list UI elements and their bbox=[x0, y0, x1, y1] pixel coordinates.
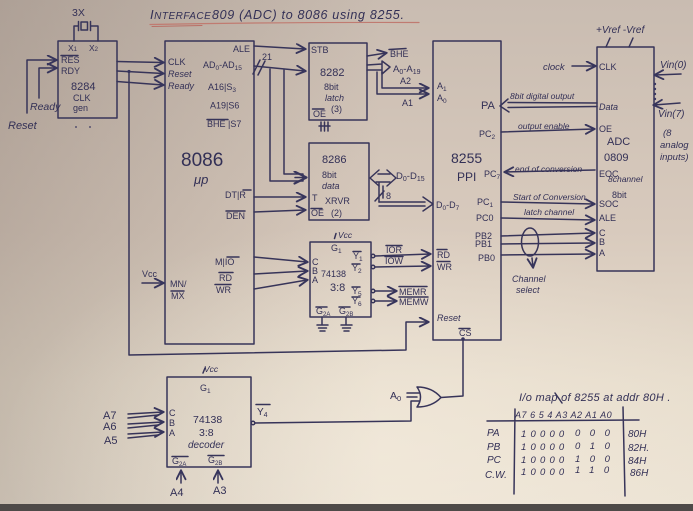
svg-text:Vcc: Vcc bbox=[204, 364, 219, 374]
svg-text:80H: 80H bbox=[628, 429, 647, 440]
svg-text:21: 21 bbox=[262, 52, 272, 62]
svg-text:C: C bbox=[169, 408, 176, 418]
svg-text:analog: analog bbox=[660, 140, 689, 151]
svg-text:A2: A2 bbox=[400, 76, 411, 86]
svg-text:Vin(0): Vin(0) bbox=[660, 60, 687, 71]
svg-text:8255: 8255 bbox=[451, 150, 482, 166]
wire D0-D7 to 8255 bbox=[379, 197, 433, 211]
svg-text:86H: 86H bbox=[630, 468, 649, 479]
svg-text:Reset: Reset bbox=[437, 313, 461, 323]
svg-text:Start of Conversion: Start of Conversion bbox=[513, 192, 586, 202]
svg-text:(3): (3) bbox=[331, 104, 342, 114]
svg-text:X1: X1 bbox=[68, 43, 78, 53]
wire PC2 to OE bbox=[501, 129, 594, 132]
svg-text:A: A bbox=[169, 428, 175, 438]
Y4 output bbox=[257, 407, 268, 419]
svg-text:latch: latch bbox=[325, 93, 344, 103]
node A7 A6 A5 labels bbox=[103, 410, 117, 447]
Vin ellipsis dots bbox=[654, 83, 656, 85]
svg-text:clock: clock bbox=[543, 62, 566, 73]
A0 input to OR gate bbox=[390, 390, 401, 403]
Vin(0) input bbox=[660, 60, 687, 71]
svg-text:CLK: CLK bbox=[73, 93, 91, 103]
Y5 MEMR bbox=[371, 289, 375, 293]
wire ALE to 8282 STB bbox=[254, 46, 305, 49]
A0-A19 bus output of 8282 bbox=[367, 61, 390, 74]
svg-text:G1: G1 bbox=[200, 383, 211, 395]
svg-text:RES: RES bbox=[61, 55, 80, 65]
svg-text:A0: A0 bbox=[437, 93, 447, 105]
svg-text:MEMR: MEMR bbox=[399, 287, 427, 297]
svg-text:BHE |S7: BHE |S7 bbox=[207, 119, 241, 129]
svg-text:data: data bbox=[322, 181, 340, 191]
svg-text:(2): (2) bbox=[331, 208, 342, 218]
svg-text:C.W.: C.W. bbox=[485, 470, 507, 481]
svg-text:T: T bbox=[312, 193, 318, 203]
svg-text:809 (ADC) to 8086 using 8255.: 809 (ADC) to 8086 using 8255. bbox=[212, 8, 405, 22]
svg-text:IOR: IOR bbox=[386, 245, 403, 255]
svg-text:X2: X2 bbox=[89, 43, 99, 53]
svg-text:OE: OE bbox=[311, 208, 324, 218]
wire DT/R to 8286 T bbox=[254, 196, 305, 198]
svg-text:A0-A19: A0-A19 bbox=[393, 64, 421, 76]
wire EOC to PC7 bbox=[505, 170, 595, 172]
svg-text:0809: 0809 bbox=[604, 152, 628, 164]
wire OR out to 8255 CS bbox=[441, 339, 463, 398]
svg-text:A4: A4 bbox=[170, 487, 183, 499]
svg-text:IOW: IOW bbox=[385, 256, 404, 266]
wire A6 to decoder B bbox=[128, 422, 163, 424]
channel select ellipse bbox=[522, 228, 539, 256]
svg-text:8channel: 8channel bbox=[608, 174, 644, 184]
svg-text:PB: PB bbox=[487, 442, 501, 453]
wire A3 to G2B bbox=[217, 471, 219, 483]
svg-text:010: 010 bbox=[575, 441, 619, 452]
svg-text:3:8: 3:8 bbox=[199, 427, 214, 439]
8284 clock generator U1 bbox=[58, 41, 117, 118]
svg-text:3:8: 3:8 bbox=[330, 282, 345, 294]
svg-text:8bit: 8bit bbox=[324, 82, 339, 92]
svg-text:A16|S3: A16|S3 bbox=[208, 82, 236, 94]
wire 8284 RESET to 8086 bbox=[117, 71, 163, 74]
wire PC1 to SOC bbox=[501, 202, 594, 204]
svg-text:SOC: SOC bbox=[599, 199, 619, 209]
svg-text:end of conversion: end of conversion bbox=[515, 164, 582, 174]
svg-text:output enable: output enable bbox=[518, 121, 570, 131]
svg-text:PC0: PC0 bbox=[476, 213, 494, 223]
svg-text:I/o map of 8255 at addr 80H .: I/o map of 8255 at addr 80H . bbox=[519, 392, 671, 404]
wire WR to decoder A bbox=[254, 280, 307, 289]
8286 data transceiver bbox=[309, 143, 369, 220]
svg-text:10000: 10000 bbox=[521, 455, 568, 466]
svg-text:MN/: MN/ bbox=[170, 279, 187, 289]
svg-text:G1: G1 bbox=[331, 243, 342, 255]
svg-text:WR: WR bbox=[216, 285, 231, 295]
svg-text:+Vref -Vref: +Vref -Vref bbox=[596, 25, 645, 36]
svg-text:PA: PA bbox=[481, 100, 496, 112]
wire PB1 to B bbox=[501, 243, 594, 244]
svg-text:84H: 84H bbox=[628, 456, 647, 467]
svg-text:A1: A1 bbox=[437, 81, 447, 93]
svg-text:A: A bbox=[312, 275, 318, 285]
svg-text:PPI: PPI bbox=[457, 170, 476, 184]
wire AD bus down to 8286 bbox=[270, 69, 303, 181]
wire PC0 to ALE bbox=[501, 218, 594, 220]
svg-text:G2A: G2A bbox=[172, 456, 186, 468]
BHE output of 8282 bbox=[367, 53, 386, 56]
svg-text:Channel: Channel bbox=[512, 274, 547, 284]
svg-text:A: A bbox=[599, 248, 605, 258]
svg-text:8282: 8282 bbox=[320, 67, 344, 79]
svg-text:10000: 10000 bbox=[521, 442, 568, 453]
ground hatches below decoder bbox=[317, 317, 328, 331]
svg-text:100: 100 bbox=[575, 454, 619, 465]
node reset junction bbox=[127, 70, 130, 73]
svg-text:G2A: G2A bbox=[316, 306, 330, 318]
svg-text:8bit digital output: 8bit digital output bbox=[510, 91, 575, 101]
Y1 IOR to 8255 RD bbox=[371, 254, 375, 258]
svg-text:PC2: PC2 bbox=[479, 129, 496, 141]
wire A4 to G2A bbox=[180, 471, 182, 483]
ADC 0809 bbox=[597, 47, 654, 271]
svg-text:PA: PA bbox=[487, 428, 500, 439]
svg-text:ADC: ADC bbox=[607, 136, 630, 148]
svg-text:MEMW: MEMW bbox=[399, 297, 429, 307]
svg-text:A5: A5 bbox=[104, 435, 117, 447]
bus slash 21 bbox=[253, 60, 265, 75]
external Ready input bbox=[39, 68, 56, 98]
D bus tap down slash 8 bbox=[375, 183, 384, 202]
svg-text:3X: 3X bbox=[72, 7, 85, 19]
svg-text:WR: WR bbox=[437, 262, 452, 272]
Y6 MEMW bbox=[371, 299, 375, 303]
wire PB0 to A bbox=[501, 254, 594, 255]
svg-text:10000: 10000 bbox=[521, 467, 568, 478]
svg-text:μp: μp bbox=[193, 172, 208, 187]
svg-text:XRVR: XRVR bbox=[325, 196, 350, 206]
svg-text:PC1: PC1 bbox=[477, 197, 494, 209]
svg-text:Y1: Y1 bbox=[353, 251, 363, 263]
svg-text:RD: RD bbox=[437, 250, 450, 260]
svg-text:CLK: CLK bbox=[168, 57, 186, 67]
svg-text:G2B: G2B bbox=[339, 306, 353, 318]
svg-text:000: 000 bbox=[575, 428, 619, 439]
svg-text:A0: A0 bbox=[390, 390, 401, 403]
svg-text:Y2: Y2 bbox=[352, 263, 362, 275]
external Reset input bbox=[27, 60, 56, 113]
svg-text:Vcc: Vcc bbox=[142, 269, 158, 279]
decoder 74138 U4 (address) bbox=[167, 377, 251, 467]
Vcc to MN/MX bbox=[142, 269, 158, 279]
wire M/IO to decoder C bbox=[254, 257, 307, 262]
wire 8284 CLK to 8086 bbox=[117, 62, 163, 63]
svg-text:OE: OE bbox=[313, 109, 326, 119]
svg-text:A7 6 5 4 A3 A2 A1 A0: A7 6 5 4 A3 A2 A1 A0 bbox=[514, 410, 612, 420]
8282 address latch bbox=[309, 43, 367, 120]
svg-text:decoder: decoder bbox=[188, 440, 225, 451]
svg-text:PC7: PC7 bbox=[484, 169, 501, 181]
wire A7 to decoder C bbox=[128, 412, 163, 414]
svg-text:8086: 8086 bbox=[181, 150, 223, 171]
node CS junction bbox=[461, 337, 465, 341]
svg-text:B: B bbox=[599, 237, 605, 247]
svg-text:A19|S6: A19|S6 bbox=[210, 101, 239, 111]
svg-text:Ready: Ready bbox=[30, 101, 61, 113]
wire Y4 to OR gate bbox=[255, 401, 419, 423]
svg-text:A1: A1 bbox=[402, 98, 413, 108]
wire PB2 to C bbox=[501, 233, 594, 236]
svg-text:Data: Data bbox=[599, 102, 618, 112]
+Vref -Vref bbox=[596, 25, 645, 36]
svg-text:PB0: PB0 bbox=[478, 253, 495, 263]
svg-text:gen: gen bbox=[73, 103, 88, 113]
wire Data bus to PA bbox=[500, 99, 597, 112]
svg-text:OE: OE bbox=[599, 124, 612, 134]
svg-text:(8: (8 bbox=[663, 128, 672, 139]
svg-text:M|IO: M|IO bbox=[215, 257, 234, 267]
svg-text:ALE: ALE bbox=[233, 44, 250, 54]
svg-text:PC: PC bbox=[487, 455, 502, 466]
svg-text:D0-D15: D0-D15 bbox=[396, 171, 425, 183]
svg-text:D0-D7: D0-D7 bbox=[436, 200, 460, 212]
svg-text:8: 8 bbox=[386, 191, 391, 201]
8255 PPI bbox=[433, 41, 501, 340]
svg-text:PB1: PB1 bbox=[475, 239, 492, 249]
svg-text:INTERFACE: INTERFACE bbox=[150, 7, 211, 22]
svg-text:Y4: Y4 bbox=[257, 407, 268, 419]
svg-text:inputs): inputs) bbox=[660, 152, 689, 163]
Vin(7) input bbox=[654, 103, 680, 105]
svg-text:CLK: CLK bbox=[599, 62, 617, 72]
Y2 IOW to 8255 WR bbox=[371, 265, 375, 269]
crystal X1-X2 bbox=[72, 7, 85, 19]
clock input bbox=[543, 62, 566, 73]
svg-text:8bit: 8bit bbox=[322, 170, 337, 180]
svg-text:Reset: Reset bbox=[8, 120, 38, 132]
wire AD0-AD15 bus to 8282 bbox=[254, 66, 305, 71]
wire 8284 READY to 8086 bbox=[117, 82, 163, 86]
svg-text:A3: A3 bbox=[213, 485, 226, 497]
OR gate U5 (CS decode) bbox=[417, 387, 441, 407]
svg-text:110: 110 bbox=[575, 465, 619, 476]
svg-text:RD: RD bbox=[219, 273, 232, 283]
svg-text:82H.: 82H. bbox=[628, 443, 649, 454]
8086 microprocessor bbox=[165, 41, 254, 344]
svg-text:DEN: DEN bbox=[226, 211, 245, 221]
svg-text:Ready: Ready bbox=[168, 81, 195, 91]
svg-text:A6: A6 bbox=[103, 421, 116, 433]
svg-text:CS: CS bbox=[459, 328, 472, 338]
svg-text:AD0-AD15: AD0-AD15 bbox=[203, 60, 242, 72]
svg-text:10000: 10000 bbox=[521, 429, 568, 440]
svg-text:Reset: Reset bbox=[168, 69, 192, 79]
D0-D15 bus output of 8286 bbox=[370, 170, 396, 186]
wire A5 to decoder A bbox=[128, 432, 163, 434]
decoder 74138 U3 (IO) bbox=[310, 242, 371, 317]
svg-text:G2B: G2B bbox=[208, 455, 222, 467]
svg-text:latch channel: latch channel bbox=[524, 207, 575, 217]
title bbox=[150, 7, 405, 22]
svg-text:74138: 74138 bbox=[321, 269, 346, 279]
svg-text:B: B bbox=[169, 418, 175, 428]
wire A1 to 8255 A0 bbox=[377, 72, 428, 94]
svg-text:STB: STB bbox=[311, 45, 329, 55]
hatch below 8282 bbox=[319, 122, 330, 131]
svg-text:8284: 8284 bbox=[71, 81, 95, 93]
wire A2 to 8255 A1 bbox=[382, 72, 428, 88]
wire RD to decoder B bbox=[254, 271, 307, 274]
wire reset net to 8255 bbox=[129, 72, 428, 356]
overlines 8255 RD WR CS bbox=[437, 250, 470, 329]
svg-text:Vcc: Vcc bbox=[338, 230, 353, 240]
svg-text:ALE: ALE bbox=[599, 213, 616, 223]
wire DEN to 8286 OE bbox=[254, 210, 305, 212]
svg-text:select: select bbox=[516, 285, 540, 295]
svg-text:RDY: RDY bbox=[61, 66, 80, 76]
svg-text:BHE: BHE bbox=[390, 49, 409, 59]
IO map table bbox=[485, 392, 671, 481]
svg-text:Vin(7): Vin(7) bbox=[658, 109, 685, 120]
overlines 8086 pins bbox=[171, 120, 251, 292]
svg-text:DT|R: DT|R bbox=[225, 190, 246, 200]
svg-text:74138: 74138 bbox=[193, 414, 222, 426]
svg-text:8286: 8286 bbox=[322, 154, 346, 166]
svg-text:MX: MX bbox=[171, 291, 185, 301]
